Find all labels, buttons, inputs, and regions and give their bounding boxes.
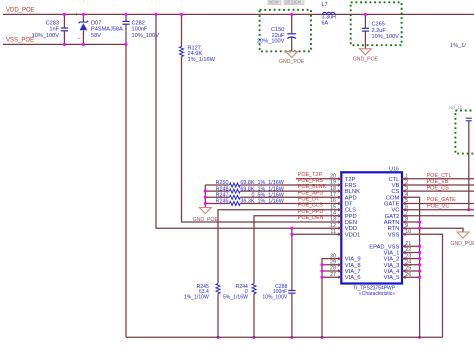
svg-text:GND_POE: GND_POE: [353, 56, 379, 62]
pin 2 VB: [392, 180, 409, 189]
junction R244 bus: [252, 336, 255, 339]
svg-text:69.8K: 69.8K: [240, 180, 254, 186]
wire POE_VC: [402, 209, 474, 211]
svg-text:CLS: CLS: [345, 208, 356, 214]
wire VSS_POE rail: [3, 43, 126, 45]
wire VSS down right side: [402, 234, 443, 337]
junction VC column: [467, 208, 470, 211]
svg-text:VDD_POE: VDD_POE: [6, 8, 35, 14]
svg-text:VB: VB: [392, 183, 400, 189]
pin 7 GAT2: [385, 211, 409, 220]
svg-text:C265: C265: [372, 22, 385, 28]
pin 21 EPAD_VSS: [369, 241, 411, 250]
pin 9 RTN: [388, 223, 409, 232]
pin 14 PPD: [330, 211, 357, 220]
svg-text:EPAD_VSS: EPAD_VSS: [369, 244, 399, 250]
resistor R248: [205, 186, 341, 193]
pin 3 CS: [391, 186, 408, 195]
svg-text:RTN: RTN: [388, 226, 400, 232]
junction R247: [204, 196, 207, 199]
wire pin CLS to R245: [218, 210, 341, 284]
gray annotation boxes top: [268, 0, 304, 5]
svg-text:POE_VC: POE_VC: [427, 204, 449, 210]
svg-text:DES|GN: DES|GN: [285, 0, 301, 5]
junction C283 top: [63, 13, 66, 16]
wire VDD1 to pin: [292, 233, 341, 235]
svg-text:GND_POE: GND_POE: [193, 217, 219, 223]
svg-text:VIA_1: VIA_1: [384, 251, 400, 257]
ground C150 GND_POE: [286, 52, 298, 58]
svg-text:VIA_2: VIA_2: [384, 257, 400, 263]
svg-text:1%_1/: 1%_1/: [450, 43, 466, 49]
svg-text:1nF: 1nF: [49, 26, 59, 32]
svg-text:20%_100V: 20%_100V: [257, 39, 285, 45]
green DNI box around C265: [351, 2, 402, 45]
svg-text:BLNK: BLNK: [345, 189, 360, 195]
svg-text:APD: APD: [345, 195, 357, 201]
junction ARTN: [418, 220, 421, 223]
svg-text:VIA_4: VIA_4: [384, 269, 401, 275]
svg-text:12: 12: [330, 223, 336, 229]
wire ARTN to return bus: [402, 221, 420, 223]
junction VIA bus bottom: [320, 336, 323, 339]
pin 10 VSS: [388, 229, 412, 238]
inductor L7: [322, 2, 336, 26]
op-amp U16 TPS23754 body: [341, 172, 402, 283]
svg-text:P4SMAJ58A: P4SMAJ58A: [91, 26, 123, 32]
wire GND bus of bias resistors: [204, 185, 206, 208]
svg-text:VC: VC: [391, 208, 399, 214]
junction D07 bottom: [82, 43, 85, 46]
svg-text:T2P: T2P: [345, 177, 356, 183]
svg-text:VIA_7: VIA_7: [345, 269, 361, 275]
pin 13 DEN: [330, 217, 357, 226]
pin 27 VIA_6: [330, 272, 361, 281]
wire VIA_9-6 bus to bottom: [322, 259, 341, 338]
junction VIA_1: [418, 251, 421, 254]
wire GAT2: [402, 215, 474, 217]
resistor R127: [180, 14, 216, 63]
wire bottom VSS bus: [126, 336, 443, 338]
wire COM to return bus: [402, 197, 420, 337]
svg-text:GND_POE: GND_POE: [451, 241, 474, 247]
svg-text:2.2uF: 2.2uF: [372, 28, 387, 34]
svg-text:R246: R246: [216, 199, 229, 205]
svg-text:GND_POE: GND_POE: [279, 59, 305, 65]
junction VIA_5: [418, 276, 421, 279]
svg-text:1%_1/16W: 1%_1/16W: [258, 180, 285, 186]
svg-text:69.8K: 69.8K: [240, 186, 254, 192]
svg-text:+: +: [75, 12, 78, 18]
junction C288 VDD: [290, 227, 293, 230]
capacitor C282: [122, 14, 159, 38]
svg-text:U16: U16: [389, 166, 399, 172]
junction C265 top: [364, 13, 367, 16]
pin 22 VIA_1: [384, 247, 412, 256]
svg-text:GATE: GATE: [384, 202, 399, 208]
svg-text:10%_100V: 10%_100V: [132, 33, 160, 39]
pin 6 VC: [391, 204, 408, 213]
svg-text:VIA_3: VIA_3: [384, 263, 400, 269]
svg-text:FRS: FRS: [345, 183, 357, 189]
green DNI box right edge: [455, 111, 474, 154]
junction EPAD_VSS: [418, 245, 421, 248]
resistor R244: [223, 284, 256, 301]
svg-text:5%_1/16W: 5%_1/16W: [258, 193, 285, 199]
wire pin PPD to R244: [254, 216, 341, 284]
pin 23 VIA_2: [384, 253, 412, 262]
pin 17 APD: [330, 192, 357, 201]
resistor R246: [205, 199, 341, 206]
pin 15 CLS: [330, 204, 356, 213]
junction VIA_6: [320, 276, 323, 279]
capacitor C150 polarized: [257, 14, 296, 51]
wire POE_CS: [402, 190, 474, 192]
junction C288 VDD1: [290, 233, 293, 236]
svg-text:POE_CS: POE_CS: [427, 185, 450, 191]
wire VDD_POE top rail: [3, 13, 474, 15]
wire POE_VB: [402, 184, 474, 186]
ground bias resistors GND_POE: [199, 208, 211, 214]
svg-text:CS: CS: [391, 189, 399, 195]
svg-text:1%_1/16W: 1%_1/16W: [188, 57, 216, 63]
junction VIA_4: [418, 269, 421, 272]
resistor R245: [184, 284, 220, 301]
svg-text:VIA_6: VIA_6: [345, 275, 361, 281]
svg-text:POE_T2P: POE_T2P: [298, 172, 323, 178]
svg-text:6A: 6A: [322, 20, 329, 26]
wire VDD to pin VDD: [156, 14, 341, 228]
ground C265 GND_POE: [360, 49, 372, 55]
svg-text:ARTN: ARTN: [384, 220, 400, 226]
svg-text:VSS_POE: VSS_POE: [6, 38, 34, 44]
svg-text:10%_100V: 10%_100V: [32, 33, 60, 39]
svg-text:VSS: VSS: [388, 232, 400, 238]
wire pin T2P stub: [296, 178, 341, 180]
svg-text:DT: DT: [345, 202, 353, 208]
wire R245 to bus: [217, 294, 219, 338]
svg-text:R247: R247: [216, 193, 229, 199]
pin 11 VDD1: [330, 229, 360, 238]
svg-text:58V: 58V: [91, 33, 101, 39]
pin 4 COM: [386, 192, 408, 201]
green DNI box around C150: [260, 10, 311, 52]
svg-text:PPD: PPD: [345, 214, 357, 220]
svg-text:POE_VB: POE_VB: [427, 179, 449, 185]
pin 20 T2P: [330, 174, 356, 183]
pin 12 VDD: [330, 223, 357, 232]
junction R246: [204, 202, 207, 205]
wire EPAD_VSS and VIA_1-5 stubs: [402, 246, 420, 277]
pin 30 VIA_9: [330, 253, 361, 262]
pin 8 ARTN: [384, 217, 409, 226]
svg-text:NO_10: NO_10: [449, 105, 463, 110]
resistor R250: [205, 180, 341, 187]
svg-text:R248: R248: [216, 186, 229, 192]
junction C150 top: [290, 13, 293, 16]
capacitor C265: [362, 14, 399, 48]
junction D07 top: [82, 13, 85, 16]
junction return bus bottom: [418, 336, 421, 339]
svg-text:0: 0: [252, 193, 255, 199]
svg-text:1%_1/16W: 1%_1/16W: [258, 186, 285, 192]
svg-text:5%_1/16W: 5%_1/16W: [223, 294, 248, 300]
svg-text:10%_100V: 10%_100V: [372, 34, 400, 40]
pin 1 CTL: [388, 174, 408, 183]
pin 29 VIA_8: [330, 260, 361, 269]
svg-text:−: −: [77, 36, 81, 42]
svg-text:36.3K: 36.3K: [240, 199, 254, 205]
svg-text:1%_1/10W: 1%_1/10W: [184, 294, 209, 300]
capacitor clipped right edge: [466, 118, 472, 210]
junction VIA_8: [320, 263, 323, 266]
junction C283 bottom: [63, 43, 66, 46]
pin 5 GATE: [384, 198, 408, 207]
svg-text:POE_FRS: POE_FRS: [298, 178, 324, 184]
wire R244 to bus: [253, 294, 255, 338]
junction VDD vertical top: [154, 13, 157, 16]
svg-text:10%_100V: 10%_100V: [262, 294, 288, 300]
svg-text:VDD: VDD: [345, 226, 357, 232]
svg-text:R250: R250: [216, 180, 229, 186]
pin 24 VIA_3: [384, 260, 412, 269]
svg-text:NSW: NSW: [269, 0, 279, 5]
svg-text:L7: L7: [322, 2, 328, 8]
svg-text:100nF: 100nF: [132, 26, 148, 32]
wire RTN to ground: [402, 228, 463, 232]
junction VIA_3: [418, 263, 421, 266]
junction R127 top: [180, 13, 183, 16]
svg-text:«Characteristic»: «Characteristic»: [359, 291, 395, 297]
junction VSS rail to vertical: [124, 43, 127, 46]
svg-text:POE_CTL: POE_CTL: [427, 173, 452, 179]
junction C282 top: [124, 13, 127, 16]
pin 26 VIA_5: [384, 272, 412, 281]
junction RTN: [418, 227, 421, 230]
junction R245 bus: [216, 336, 219, 339]
resistor R247: [205, 193, 341, 200]
junction C288 bus: [290, 336, 293, 339]
svg-text:GAT2: GAT2: [385, 214, 400, 220]
svg-text:VIA_9: VIA_9: [345, 257, 361, 263]
capacitor C288: [262, 228, 295, 337]
wire POE_CTL: [402, 178, 474, 180]
svg-text:COM: COM: [386, 195, 400, 201]
svg-text:13: 13: [330, 217, 336, 223]
ground RTN GND_POE: [457, 232, 469, 238]
wire R127 to pin DEN: [182, 57, 342, 223]
svg-text:VIA_5: VIA_5: [384, 275, 400, 281]
svg-text:VDD1: VDD1: [345, 232, 360, 238]
pin 25 VIA_4: [384, 266, 412, 275]
svg-text:POE_GATE: POE_GATE: [427, 197, 457, 203]
svg-text:1%_1/16W: 1%_1/16W: [258, 199, 285, 205]
wire VSS_POE down to bottom bus: [125, 31, 127, 337]
diode D07 P4SMAJ58A TVS: [75, 12, 123, 44]
pin 16 DT: [330, 198, 353, 207]
pin 28 VIA_7: [330, 266, 361, 275]
junction VIA_7: [320, 269, 323, 272]
wire POE_GATE: [402, 203, 474, 205]
svg-text:CTL: CTL: [388, 177, 400, 183]
capacitor C283: [32, 14, 68, 44]
pin 19 FRS: [330, 180, 357, 189]
svg-text:VIA_8: VIA_8: [345, 263, 361, 269]
junction VIA_2: [418, 257, 421, 260]
junction R248: [204, 190, 207, 193]
pin 18 BLNK: [330, 186, 360, 195]
svg-text:DEN: DEN: [345, 220, 357, 226]
